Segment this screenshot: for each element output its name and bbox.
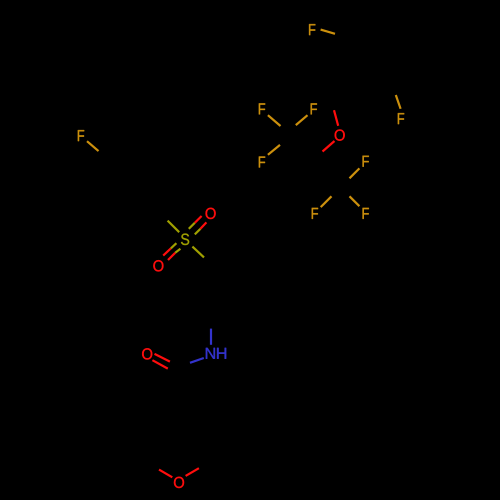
fluorine F3 label (ring right)	[398, 113, 404, 124]
bond O5-C(CF3)2 half	[323, 141, 335, 152]
bond N-C(carbonyl) half	[190, 358, 204, 363]
bond F6-C half	[268, 145, 280, 155]
bond S1=O1 outer O-half	[200, 222, 206, 228]
bond F9-C half	[350, 196, 360, 206]
bond S1=O2 outer S-half	[175, 249, 180, 253]
fluorine F1 label (left ring)	[78, 130, 84, 141]
fluorine F2 label (ring top)	[309, 24, 315, 35]
bond C=O3 line2 O-half	[152, 360, 167, 368]
bond F5-C half	[296, 115, 308, 125]
bond S1=O1 outer S-half	[195, 229, 201, 235]
bond S1-C(aryl) half	[168, 221, 180, 233]
bond F1-C half	[87, 141, 99, 151]
bond O5-C(aryl) half	[334, 110, 338, 126]
bond C=O3 line1 O-half	[155, 354, 170, 362]
fluorine F4 label (CF3-a)	[259, 103, 265, 114]
bond S1=O2 inner O-half	[163, 248, 171, 255]
bond S1-C(chain) half	[192, 247, 204, 258]
bond F8-C half	[321, 196, 332, 207]
bond S1=O2 inner S-half	[171, 243, 177, 248]
sulfur S1 label (sulfonyl)	[181, 234, 189, 245]
bond F4-C half	[268, 115, 281, 126]
bond F2-C half	[321, 30, 335, 34]
fluorine F9 label (CF3-b)	[363, 208, 369, 219]
oxygen O3 label (carbonyl)	[142, 348, 152, 359]
bond S1=O1 inner S-half	[189, 223, 195, 229]
bond S1=O1 inner O-half	[195, 216, 202, 223]
bond F3-C half	[396, 95, 401, 109]
bond S1=O2 outer O-half	[168, 253, 175, 260]
oxygen O4 label (oxane)	[174, 477, 184, 488]
bond O4-C(left) half	[159, 470, 172, 478]
hydrogen H label on amide N	[217, 348, 226, 359]
bond O4-C(right) half	[186, 468, 199, 476]
bond F7-C half	[350, 168, 360, 178]
oxygen O5 label (aryl ether)	[335, 129, 345, 140]
fluorine F5 label (CF3-a)	[311, 103, 317, 114]
fluorine F7 label (CF3-b)	[363, 156, 369, 167]
fluorine F6 label (CF3-a)	[259, 156, 265, 167]
fluorine F8 label (CF3-b)	[312, 208, 318, 219]
nitrogen N label (amide)	[206, 348, 215, 359]
oxygen O2 label (sulfonyl lower)	[153, 260, 163, 271]
bond N-C(chain) half	[210, 329, 212, 345]
oxygen O1 label (sulfonyl upper)	[206, 208, 216, 219]
